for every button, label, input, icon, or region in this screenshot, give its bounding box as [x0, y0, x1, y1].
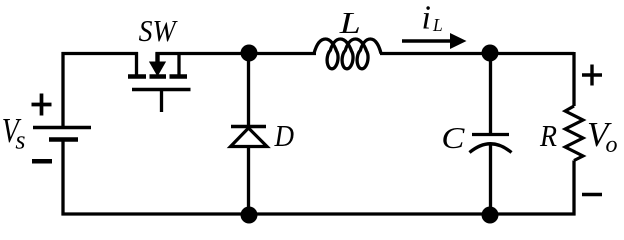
diode D cathode bar	[231, 125, 266, 129]
battery plus sign	[32, 94, 52, 116]
svg-text:R: R	[539, 118, 557, 153]
wire top rail (inductor to right corner)	[380, 52, 574, 55]
svg-text:s: s	[15, 126, 25, 155]
wire right vertical lower	[572, 161, 575, 216]
node dot top diode	[241, 45, 258, 62]
wire top rail left (to SW drain)	[62, 52, 139, 55]
wire right vertical upper	[572, 52, 575, 106]
battery minus sign	[32, 159, 52, 164]
node dot top capacitor	[482, 45, 499, 62]
svg-text:L: L	[432, 15, 443, 35]
diode D wire lower	[247, 147, 250, 216]
capacitor C curved plate	[470, 144, 512, 153]
output minus sign	[582, 193, 602, 197]
diode D wire upper	[247, 53, 250, 127]
label Vo	[587, 115, 618, 158]
svg-text:SW: SW	[139, 13, 179, 48]
wire bottom rail	[62, 212, 576, 215]
transistor SW drain stub	[135, 52, 138, 75]
label D	[274, 118, 294, 153]
transistor SW source stub	[177, 52, 180, 76]
label Vs	[2, 111, 26, 155]
resistor R zigzag	[565, 106, 583, 161]
svg-text:L: L	[339, 5, 361, 40]
svg-text:i: i	[422, 0, 431, 37]
svg-text:D: D	[274, 118, 294, 153]
label L	[339, 5, 361, 40]
inductor L coil	[314, 39, 381, 69]
node dot bottom capacitor	[482, 207, 499, 224]
output plus sign	[582, 65, 602, 86]
transistor SW channel segments	[128, 74, 187, 79]
transistor SW gate arrow	[149, 52, 166, 76]
diode D triangle	[231, 128, 268, 147]
transistor SW gate lead	[160, 91, 163, 112]
wire left vertical (Vs branch)	[61, 52, 64, 216]
svg-text:o: o	[606, 132, 618, 158]
label C	[441, 120, 464, 155]
current arrow iL	[402, 33, 467, 49]
transistor SW gate plate	[132, 88, 191, 92]
label R	[539, 118, 557, 153]
capacitor C wire upper	[489, 53, 492, 134]
label iL	[422, 0, 443, 37]
svg-text:C: C	[441, 120, 464, 155]
wire top rail (SW source to inductor)	[156, 52, 317, 55]
node dot bottom diode	[241, 207, 258, 224]
capacitor C top plate	[472, 133, 509, 136]
capacitor C wire lower	[489, 145, 492, 215]
battery Vs plates	[33, 128, 91, 140]
label SW	[139, 13, 179, 48]
